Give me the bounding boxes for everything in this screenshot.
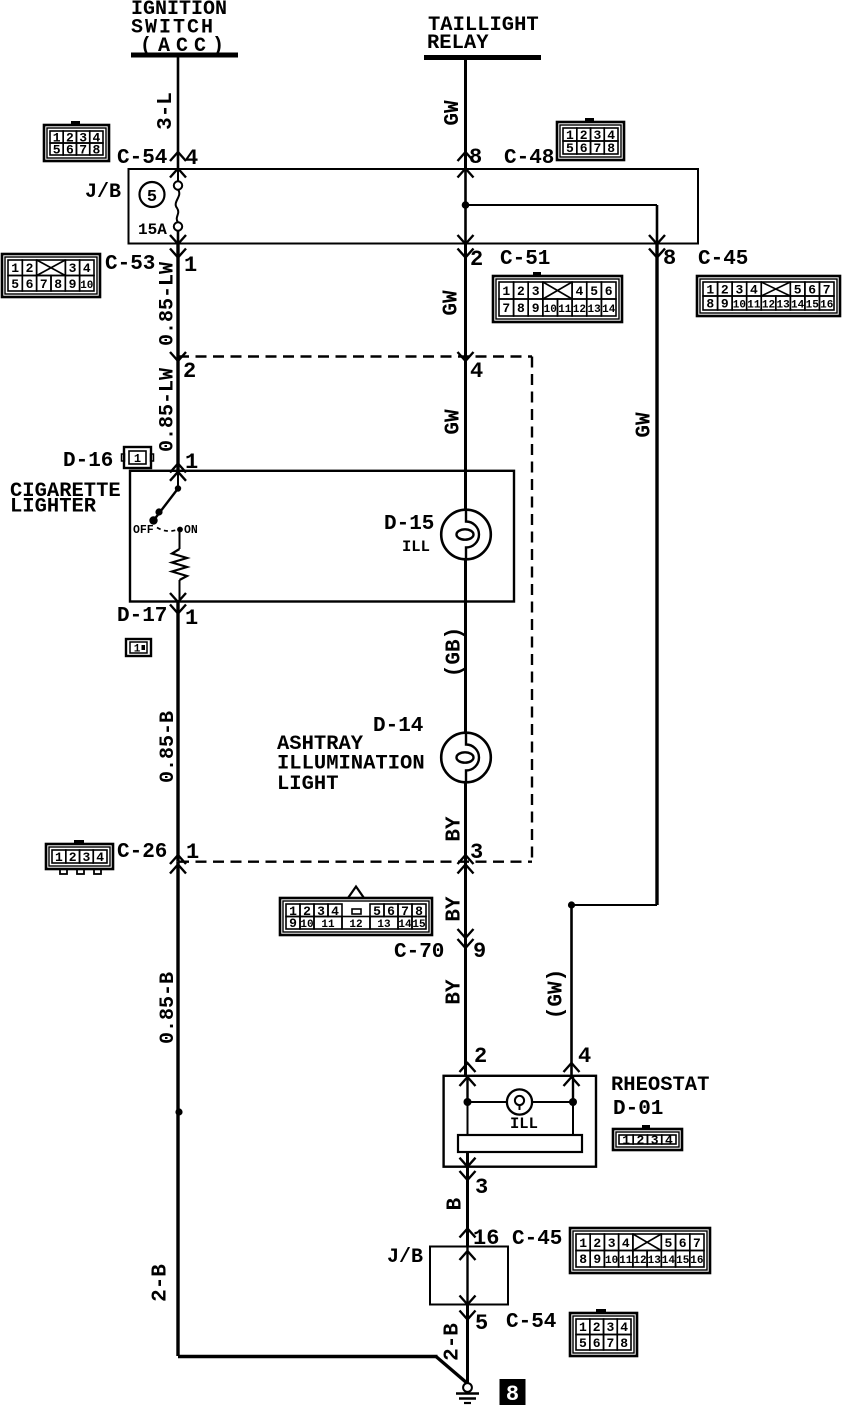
svg-text:6: 6	[66, 143, 74, 158]
rheostat arrows pin 2	[460, 1063, 476, 1086]
svg-text:6: 6	[679, 1236, 687, 1251]
svg-text:9: 9	[721, 297, 729, 312]
svg-text:15: 15	[676, 1255, 690, 1267]
wire 0.85-LW lower	[176, 357, 179, 471]
wire GB center	[464, 560, 467, 733]
svg-text:4: 4	[83, 261, 91, 276]
svg-text:2: 2	[593, 1320, 601, 1335]
svg-text:OFF: OFF	[133, 524, 154, 537]
fuse symbol 15A	[174, 169, 182, 244]
svg-text:16: 16	[820, 300, 833, 312]
wire branch to C-45 inside J/B	[466, 205, 658, 244]
wire through bottom J/B	[466, 1247, 468, 1305]
svg-text:5: 5	[566, 141, 574, 156]
connector C-53 pin box	[2, 254, 100, 297]
connector C-70 pin box	[280, 887, 432, 936]
dashed crossing arrow left pin 2	[170, 352, 186, 361]
svg-text:11: 11	[558, 304, 572, 316]
connector C-70 arrows pin 9	[458, 929, 474, 948]
svg-text:2: 2	[470, 247, 483, 272]
svg-text:1: 1	[184, 253, 197, 278]
svg-text:9: 9	[473, 939, 486, 964]
svg-text:2: 2	[474, 1044, 487, 1069]
wire 0.85-B	[176, 602, 179, 862]
connector C-53 pin 1 arrows	[170, 235, 186, 258]
svg-text:5: 5	[664, 1236, 672, 1251]
svg-text:2: 2	[26, 261, 34, 276]
svg-text:1: 1	[185, 606, 198, 631]
connector C-45 pin 8 arrows	[649, 235, 665, 258]
svg-text:RHEOSTAT: RHEOSTAT	[611, 1074, 709, 1097]
svg-text:8: 8	[517, 301, 525, 316]
svg-text:13: 13	[377, 919, 391, 931]
taillight relay feed bar	[424, 55, 541, 60]
junction block J/B box	[129, 169, 699, 244]
rheostat box	[444, 1076, 596, 1167]
svg-text:ILL: ILL	[402, 538, 430, 556]
svg-text:9: 9	[532, 301, 540, 316]
label ASHTRAY ILLUMINATION LIGHT	[277, 733, 425, 796]
svg-text:8: 8	[607, 141, 615, 156]
svg-text:8: 8	[663, 246, 676, 271]
svg-text:10: 10	[544, 304, 557, 316]
splice dot on left wire	[175, 1108, 182, 1115]
svg-text:9: 9	[289, 916, 297, 931]
svg-text:(GW): (GW)	[546, 969, 569, 1019]
svg-text:3: 3	[470, 840, 483, 865]
dashed crossing arrow center pin 4	[458, 352, 474, 361]
connector C-51 pin box	[493, 272, 622, 322]
connector C-54 pin box	[44, 121, 109, 161]
rheostat arrows pin 4	[564, 1063, 580, 1086]
svg-text:7: 7	[502, 301, 510, 316]
connector D-17 icon	[126, 639, 151, 656]
wire 0.85-B lower	[176, 862, 179, 1356]
svg-text:GW: GW	[634, 412, 657, 438]
svg-text:C-26: C-26	[117, 841, 167, 864]
svg-text:1: 1	[11, 261, 19, 276]
junction block J/B bottom box	[430, 1247, 508, 1305]
wire 2-B bottom run	[178, 1357, 468, 1384]
svg-text:LIGHTER: LIGHTER	[10, 496, 97, 519]
svg-text:11: 11	[619, 1255, 633, 1267]
svg-text:LIGHT: LIGHT	[277, 773, 339, 796]
svg-text:(GB): (GB)	[444, 627, 467, 677]
svg-text:2: 2	[69, 850, 77, 865]
svg-text:16: 16	[690, 1255, 703, 1267]
connector C-54 bottom pin box	[570, 1309, 637, 1356]
svg-text:8: 8	[54, 277, 62, 292]
svg-text:C-51: C-51	[500, 248, 550, 271]
svg-text:11: 11	[747, 300, 761, 312]
svg-text:7: 7	[593, 141, 601, 156]
svg-text:13: 13	[648, 1255, 662, 1267]
rheostat exit wire pin 3	[460, 1152, 476, 1247]
svg-text:4: 4	[96, 850, 104, 865]
svg-text:9: 9	[593, 1252, 601, 1267]
svg-text:3: 3	[606, 1320, 614, 1335]
svg-text:7: 7	[79, 143, 87, 158]
svg-text:1: 1	[622, 1133, 630, 1148]
rheostat internal wiring	[464, 1076, 578, 1135]
svg-text:3: 3	[82, 850, 90, 865]
svg-text:4: 4	[665, 1133, 673, 1148]
svg-text:C-70: C-70	[394, 941, 444, 964]
svg-text:12: 12	[573, 304, 586, 316]
wire 2-B to ground	[466, 1305, 469, 1384]
connector C-51 pin 2 arrows	[458, 235, 474, 258]
wire 0.85-LW upper	[176, 244, 179, 357]
svg-text:BY: BY	[444, 816, 467, 842]
svg-text:8: 8	[620, 1336, 628, 1351]
svg-text:4: 4	[575, 284, 583, 299]
svg-text:5: 5	[11, 277, 19, 292]
svg-text:1: 1	[55, 850, 63, 865]
svg-text:14: 14	[662, 1255, 676, 1267]
wire inside J/B center	[464, 169, 467, 244]
svg-text:BY: BY	[444, 979, 467, 1005]
lighter switch	[149, 471, 183, 533]
svg-text:15A: 15A	[138, 221, 167, 239]
svg-text:10: 10	[300, 919, 313, 931]
svg-text:4: 4	[185, 146, 198, 171]
svg-text:3: 3	[475, 1175, 488, 1200]
wire GW below C-51	[464, 244, 467, 357]
svg-text:13: 13	[776, 300, 790, 312]
svg-text:5: 5	[590, 284, 598, 299]
svg-text:7: 7	[40, 277, 48, 292]
svg-text:2: 2	[183, 359, 196, 384]
junction dot GW branch	[568, 901, 575, 908]
svg-text:2: 2	[636, 1133, 644, 1148]
connector C-54 pin 5 arrows	[460, 1296, 476, 1320]
svg-text:J/B: J/B	[85, 181, 121, 204]
svg-text:1: 1	[502, 284, 510, 299]
svg-text:13: 13	[587, 304, 601, 316]
svg-text:B: B	[445, 1197, 468, 1210]
svg-text:ILL: ILL	[510, 1115, 538, 1133]
svg-text:ON: ON	[184, 524, 198, 537]
svg-text:6: 6	[593, 1336, 601, 1351]
svg-text:1: 1	[579, 1320, 587, 1335]
svg-text:5: 5	[147, 188, 157, 207]
svg-text:3: 3	[608, 1236, 616, 1251]
junction node in J/B	[462, 201, 470, 209]
svg-text:3: 3	[532, 284, 540, 299]
svg-text:D-01: D-01	[613, 1098, 663, 1121]
ignition switch feed bar	[131, 53, 238, 58]
connector C-45 bottom pin box	[570, 1228, 710, 1273]
svg-text:GW: GW	[441, 290, 464, 316]
svg-text:6: 6	[580, 141, 588, 156]
svg-text:C-54: C-54	[117, 147, 167, 170]
svg-text:C-54: C-54	[506, 1311, 556, 1334]
svg-text:12: 12	[349, 919, 362, 931]
svg-text:D-16: D-16	[63, 450, 113, 473]
svg-text:8: 8	[706, 297, 714, 312]
svg-text:0.85-B: 0.85-B	[157, 972, 180, 1044]
wire BY at C-70	[464, 862, 467, 1076]
svg-text:15: 15	[412, 919, 426, 931]
label CIGARETTE LIGHTER	[10, 480, 121, 519]
svg-text:10: 10	[733, 300, 746, 312]
svg-text:10: 10	[80, 280, 93, 292]
svg-text:0.85-LW: 0.85-LW	[156, 368, 179, 452]
connector D-16 arrows pin 1	[170, 464, 186, 481]
connector C-45 pin 16 arrows	[460, 1229, 476, 1261]
wire GW from taillight relay	[464, 60, 467, 169]
wire GW to cigarette lighter zone	[464, 357, 467, 510]
cigarette lighter box	[130, 471, 514, 602]
svg-text:2-B: 2-B	[150, 1264, 173, 1302]
svg-text:1: 1	[186, 840, 199, 865]
svg-text:4: 4	[578, 1044, 591, 1069]
wire BY upper	[464, 783, 467, 862]
connector D-17 arrows pin 1	[170, 593, 186, 614]
svg-text:7: 7	[693, 1236, 701, 1251]
svg-text:8: 8	[506, 1382, 519, 1407]
ignition switch (ACC) feed label	[131, 0, 230, 58]
svg-text:8: 8	[92, 143, 100, 158]
svg-text:15: 15	[806, 300, 820, 312]
svg-text:8: 8	[579, 1252, 587, 1267]
fuse 5 circled number	[140, 182, 165, 207]
dashed crossing arrow center pin 3	[458, 855, 474, 874]
svg-text:14: 14	[602, 304, 616, 316]
svg-text:C-53: C-53	[105, 253, 155, 276]
wire GW jog to rheostat	[572, 905, 658, 1076]
svg-text:2: 2	[517, 284, 525, 299]
svg-text:2: 2	[593, 1236, 601, 1251]
svg-text:14: 14	[398, 919, 412, 931]
svg-text:12: 12	[633, 1255, 646, 1267]
wire GW right branch	[655, 244, 658, 906]
bulb D-14 ashtray illumination	[441, 733, 491, 783]
svg-text:12: 12	[762, 300, 775, 312]
svg-text:BY: BY	[444, 896, 467, 922]
connector D-16 icon	[122, 447, 154, 468]
svg-text:6: 6	[605, 284, 613, 299]
dashed instrument panel boundary	[178, 357, 532, 862]
connector D-01 pin box	[613, 1125, 682, 1150]
svg-text:5: 5	[53, 143, 61, 158]
svg-text:4: 4	[470, 359, 483, 384]
svg-text:11: 11	[321, 919, 335, 931]
svg-text:7: 7	[606, 1336, 614, 1351]
svg-text:2-B: 2-B	[442, 1323, 465, 1361]
svg-text:3-L: 3-L	[155, 92, 178, 130]
svg-text:C-48: C-48	[504, 147, 554, 170]
svg-text:RELAY: RELAY	[427, 32, 489, 55]
svg-text:1: 1	[134, 644, 141, 656]
page number badge 8	[500, 1379, 526, 1407]
svg-text:10: 10	[605, 1255, 618, 1267]
taillight relay feed label	[427, 14, 539, 55]
svg-text:D-14: D-14	[373, 715, 423, 738]
svg-text:D-15: D-15	[384, 513, 434, 536]
svg-text:0.85-LW: 0.85-LW	[156, 262, 179, 346]
connector C-54 pin 4 arrows	[170, 152, 186, 178]
svg-text:GW: GW	[443, 409, 466, 435]
svg-text:1: 1	[134, 452, 141, 466]
connector C-48 pin box	[557, 118, 624, 160]
svg-text:3: 3	[69, 261, 77, 276]
svg-text:4: 4	[622, 1236, 630, 1251]
svg-text:5: 5	[579, 1336, 587, 1351]
svg-text:C-45: C-45	[698, 248, 748, 271]
svg-text:5: 5	[475, 1311, 488, 1336]
svg-text:J/B: J/B	[387, 1246, 423, 1269]
rheostat resistive element bar	[458, 1135, 582, 1152]
connector C-26 pin box	[46, 840, 113, 874]
connector C-26 arrows pin 1	[170, 855, 186, 874]
ground symbol	[456, 1383, 479, 1403]
lighter heating element resistor	[172, 532, 187, 602]
svg-text:1: 1	[579, 1236, 587, 1251]
svg-text:6: 6	[26, 277, 34, 292]
rheostat illumination bulb	[507, 1089, 532, 1114]
svg-text:C-45: C-45	[512, 1228, 562, 1251]
svg-text:8: 8	[469, 145, 482, 170]
connector C-45 pin box	[697, 276, 840, 316]
svg-text:GW: GW	[442, 100, 465, 126]
svg-text:D-17: D-17	[117, 605, 167, 628]
svg-text:14: 14	[791, 300, 805, 312]
svg-text:0.85-B: 0.85-B	[157, 711, 180, 783]
connector C-48 pin 8 arrows	[458, 152, 474, 178]
svg-text:3: 3	[651, 1133, 659, 1148]
svg-text:9: 9	[69, 277, 77, 292]
wire 3-L from ignition switch	[177, 58, 180, 170]
bulb D-15 lighter illumination	[441, 510, 491, 560]
svg-text:4: 4	[620, 1320, 628, 1335]
